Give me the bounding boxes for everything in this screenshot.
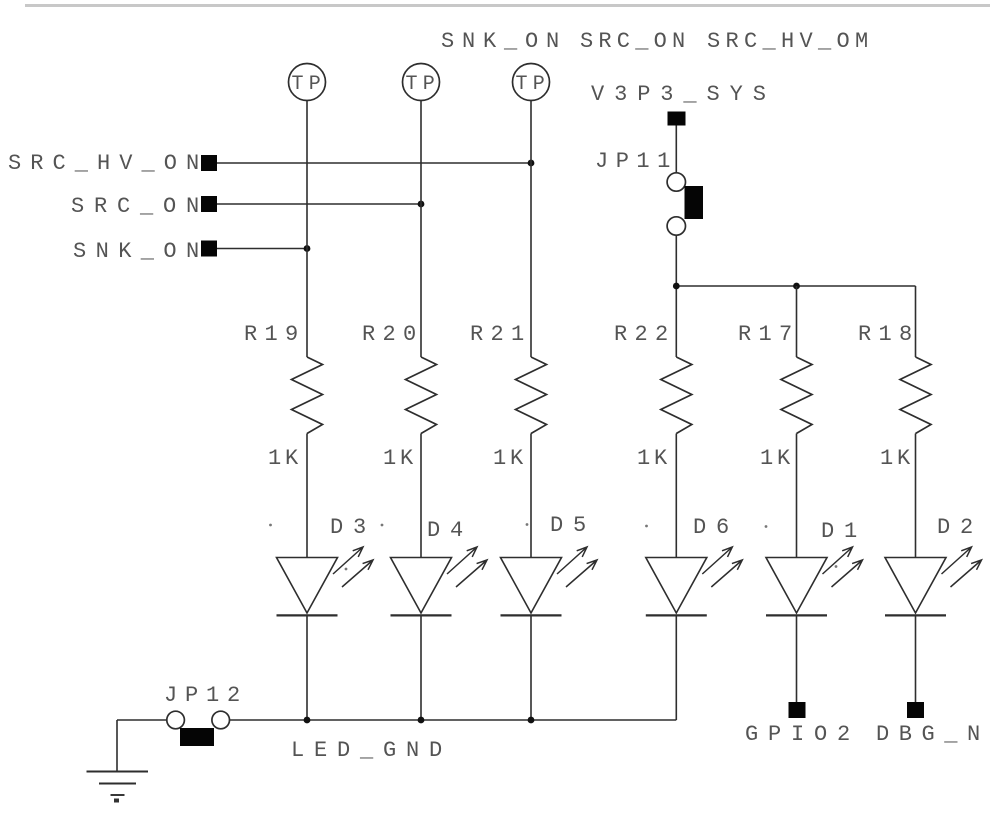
port SRC_ON (filled square) xyxy=(201,196,217,212)
svg-text:SRC_ON: SRC_ON xyxy=(71,194,209,219)
svg-text:DBG_N: DBG_N xyxy=(876,722,990,747)
LED D2 xyxy=(885,558,946,614)
LED D6 light arrows xyxy=(702,547,742,587)
test point TP2 xyxy=(403,64,440,101)
jumper JP11 pin 1 (circle) xyxy=(667,173,685,191)
wire D4 cathode to LED_GND xyxy=(420,615,422,720)
wire TP2 to R20 xyxy=(420,101,422,358)
jumper JP12 pin 2 (circle) xyxy=(212,711,230,729)
svg-text:R21: R21 xyxy=(470,322,532,347)
svg-text:TP: TP xyxy=(406,73,441,96)
wire D6 cathode to LED_GND xyxy=(675,615,677,720)
svg-text:SNK_ON: SNK_ON xyxy=(73,239,209,264)
svg-text:D6: D6 xyxy=(693,515,739,540)
junction SRC_HV_ON / TP3 column xyxy=(528,160,535,167)
jumper JP11 pin 2 (circle) xyxy=(667,217,685,235)
svg-text:R22: R22 xyxy=(614,322,676,347)
wire V3P3 distribution bus xyxy=(676,285,915,287)
wire TP1 to R19 xyxy=(306,101,308,358)
resistor R19 xyxy=(292,357,323,434)
LED D4 xyxy=(391,558,452,614)
svg-text:D2: D2 xyxy=(937,515,983,540)
svg-text:SRC_HV_ON: SRC_HV_ON xyxy=(8,151,208,176)
svg-text:TP: TP xyxy=(516,73,551,96)
svg-text:LED_GND: LED_GND xyxy=(291,738,452,763)
svg-text:SRC_ON: SRC_ON xyxy=(580,29,690,54)
power symbol V3P3_SYS (filled square pin) xyxy=(668,112,686,126)
wire SRC_HV_ON bus xyxy=(217,162,531,164)
wire R18 to LED anode xyxy=(915,434,917,558)
svg-text:D5: D5 xyxy=(550,513,596,538)
svg-text:1K: 1K xyxy=(493,446,527,471)
svg-text:JP11: JP11 xyxy=(595,149,678,174)
LED D1 light arrows xyxy=(823,547,863,587)
wire bus corner down to R18 xyxy=(915,286,917,357)
svg-text:1K: 1K xyxy=(880,446,914,471)
LED D6 xyxy=(646,558,707,614)
resistor R21 xyxy=(516,357,547,434)
jumper JP12 shunt block xyxy=(180,728,214,746)
svg-text:V3P3_SYS: V3P3_SYS xyxy=(591,82,776,107)
LED D1 xyxy=(766,558,827,614)
wire: top border line xyxy=(25,4,990,7)
wire D2 cathode to DBG_N xyxy=(915,615,917,702)
svg-text:R18: R18 xyxy=(858,322,920,347)
junction SNK_ON / TP1 column xyxy=(304,245,311,252)
svg-text:D3: D3 xyxy=(330,515,376,540)
wire JP11 pin2 down to junction xyxy=(675,235,677,357)
svg-text:D4: D4 xyxy=(427,518,473,543)
wire D3 cathode to LED_GND xyxy=(306,615,308,720)
port SRC_HV_ON (filled square) xyxy=(201,155,217,171)
junction bus / R17 column xyxy=(793,283,800,290)
port DBG_N (filled square) xyxy=(907,702,924,718)
junction LED_GND / D3 xyxy=(304,717,311,724)
svg-text:1K: 1K xyxy=(383,446,417,471)
svg-text:R17: R17 xyxy=(738,322,800,347)
svg-text:R20: R20 xyxy=(362,322,424,347)
wire R21 to LED anode xyxy=(530,434,532,558)
wire R19 to LED anode xyxy=(306,434,308,558)
LED D4 light arrows xyxy=(447,547,487,587)
wire down to ground xyxy=(116,720,118,772)
junction bus / R22 column xyxy=(673,283,680,290)
junction LED_GND / D4 xyxy=(418,717,425,724)
junction SRC_ON / TP2 column xyxy=(418,201,425,208)
wire LED_GND bus xyxy=(230,719,677,721)
LED D2 light arrows xyxy=(942,547,982,587)
resistor R22 xyxy=(661,357,692,434)
wire D1 cathode to GPIO2 xyxy=(796,615,798,702)
svg-text:D1: D1 xyxy=(821,519,867,544)
svg-text:SRC_HV_OM: SRC_HV_OM xyxy=(707,29,874,54)
resistor R18 xyxy=(900,357,931,434)
LED D5 light arrows xyxy=(557,547,597,587)
wire R17 to LED anode xyxy=(796,434,798,558)
jumper JP12 pin 1 (circle) xyxy=(167,711,185,729)
port SNK_ON (filled square) xyxy=(201,241,217,257)
wire bus corner down to R17 xyxy=(796,286,798,357)
svg-text:1K: 1K xyxy=(637,446,671,471)
junction LED_GND / D5 xyxy=(528,717,535,724)
LED D3 light arrows xyxy=(333,547,373,587)
LED D5 xyxy=(501,558,562,614)
wire D5 cathode to LED_GND xyxy=(530,615,532,720)
wire SNK_ON bus xyxy=(217,248,307,250)
svg-text:TP: TP xyxy=(292,73,327,96)
resistor R20 xyxy=(406,357,437,434)
svg-text:1K: 1K xyxy=(760,446,794,471)
wire V3P3_SYS square to JP11 pin1 xyxy=(675,126,677,174)
ground symbol xyxy=(87,771,149,773)
port GPIO2 (filled square) xyxy=(789,702,806,718)
wire R20 to LED anode xyxy=(420,434,422,558)
svg-text:R19: R19 xyxy=(244,322,306,347)
test point TP3 xyxy=(513,64,550,101)
svg-text:JP12: JP12 xyxy=(164,683,248,708)
wire R22 to LED anode xyxy=(675,434,677,558)
LED D3 xyxy=(277,558,338,614)
test point TP1 xyxy=(289,64,326,101)
svg-text:SNK_ON: SNK_ON xyxy=(441,29,567,54)
resistor R17 xyxy=(781,357,812,434)
wire TP3 to R21 xyxy=(530,101,532,358)
svg-text:GPIO2: GPIO2 xyxy=(745,722,860,747)
wire JP12 to ground corner xyxy=(117,719,167,721)
wire SRC_ON bus xyxy=(217,203,421,205)
jumper JP11 shunt block xyxy=(685,186,704,219)
svg-text:1K: 1K xyxy=(268,446,302,471)
